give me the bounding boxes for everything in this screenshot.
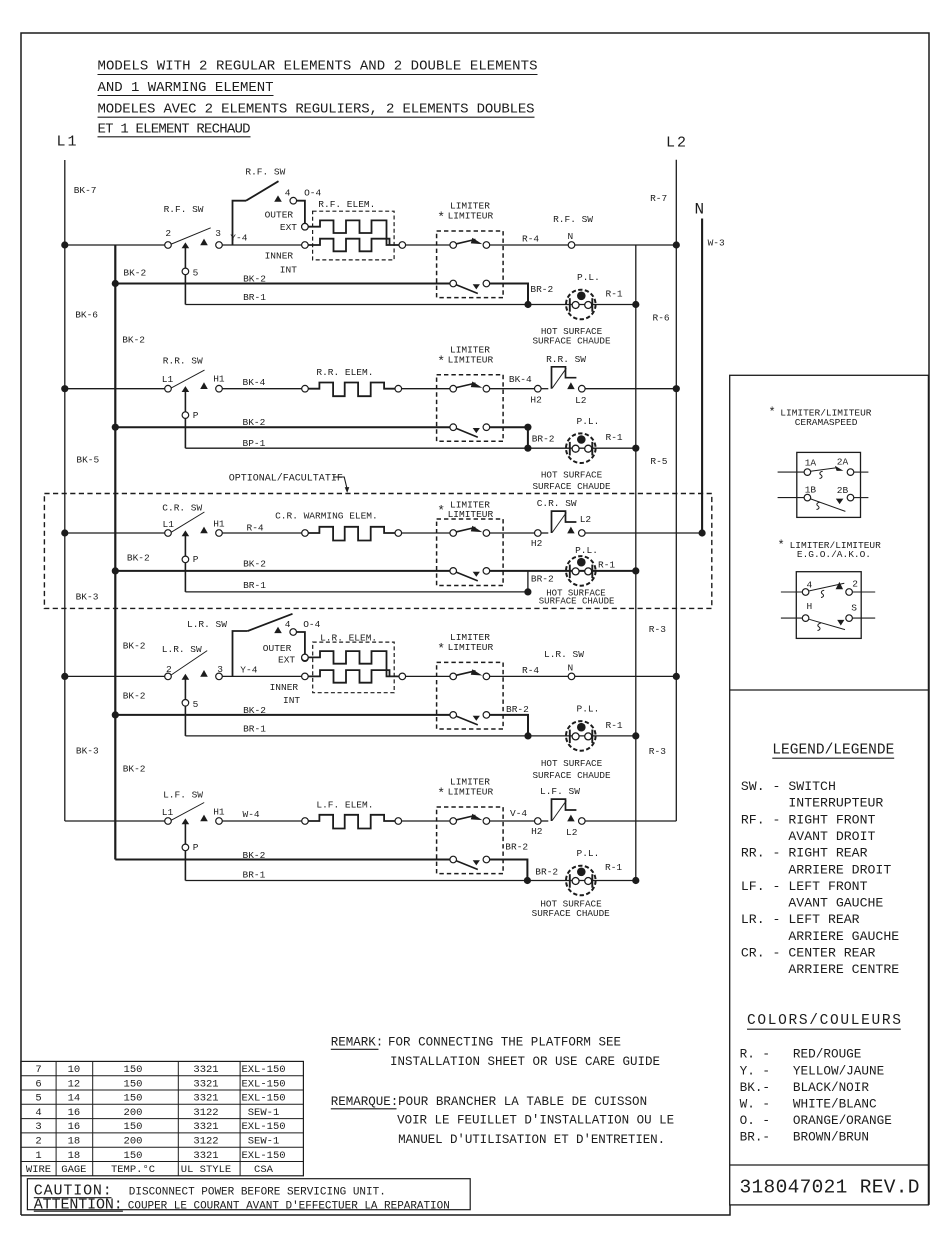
svg-text:C.R. WARMING ELEM.: C.R. WARMING ELEM. [275,511,378,522]
svg-text:R-3: R-3 [649,746,666,757]
wire R-4 (row3 switch to element) [222,522,301,533]
svg-text:O-4: O-4 [303,619,320,630]
svg-text:*: * [437,642,445,657]
resistor C.R. WARMING ELEM. [275,511,402,541]
limiter (L.R.) dashed box with contacts [437,662,504,729]
label OPTIONAL/FACULTATIF with leader arrow [229,472,349,493]
wire row4 main (L1 to L.R. switch) [65,675,165,677]
svg-text:BR-2: BR-2 [505,841,528,852]
svg-text:BR-2: BR-2 [531,574,554,585]
junction row5 pilot line at return vertical [632,877,639,884]
color code entries [740,1047,892,1145]
svg-text:HOT SURFACE: HOT SURFACE [541,470,603,481]
svg-text:H2: H2 [530,394,542,405]
caution box (EN/FR warning) [27,1179,470,1214]
svg-text:RR. - RIGHT REAR: RR. - RIGHT REAR [741,846,868,861]
junction row3 pilot line at return vertical [632,567,639,574]
legend entries (switch abbreviations) [741,779,899,977]
junction row1 BK-2 on feeder [112,280,119,287]
svg-text:OPTIONAL/FACULTATIF: OPTIONAL/FACULTATIF [229,472,343,484]
wire BK-2 (row1 to limiter lower contact) [115,274,450,285]
svg-text:BR-2: BR-2 [535,867,558,878]
svg-text:INNER: INNER [265,250,294,261]
svg-text:16: 16 [68,1121,81,1133]
junction row3 on neutral bus W-3 [699,529,706,536]
wire BK-2 (row3 pilot feed line) [115,559,450,571]
junction row3 BR-1 at step [524,588,531,595]
svg-text:C.R. SW: C.R. SW [537,498,577,509]
svg-text:CSA: CSA [254,1164,274,1176]
svg-text:R.F. SW: R.F. SW [553,214,593,225]
svg-text:OUTER: OUTER [265,209,294,220]
svg-text:O-4: O-4 [304,188,321,199]
junction row1 BR-2 at pilot line [524,301,531,308]
svg-text:BK-3: BK-3 [76,592,99,603]
junction row4 on L1 bus [61,673,68,680]
svg-text:1: 1 [35,1150,41,1162]
svg-text:EXT: EXT [278,654,295,665]
svg-text:BR-1: BR-1 [243,292,266,303]
junction row1 on L1 bus [61,241,68,248]
svg-text:200: 200 [124,1107,143,1119]
wire row2 element to limiter [402,388,450,390]
legend symbol: limiter CERAMASPEED (contacts 1A/2A/1B/2B) [778,452,869,517]
svg-text:1B: 1B [805,484,817,495]
svg-text:R-6: R-6 [653,312,670,323]
svg-text:SW. - SWITCH: SW. - SWITCH [741,779,836,794]
switch L.F. SW (thermal, terminals H2/L2) [531,786,585,838]
svg-text:7: 7 [35,1064,41,1076]
svg-text:VOIR LE FEUILLET D'INSTALLATIO: VOIR LE FEUILLET D'INSTALLATION OU LE [397,1113,674,1127]
svg-text:BK-3: BK-3 [76,746,99,757]
svg-text:R.F. ELEM.: R.F. ELEM. [318,199,375,210]
wire row1 element to limiter [406,244,450,246]
wire row3 limiter out through pilot lamp [490,570,636,572]
svg-text:SEW-1: SEW-1 [248,1107,280,1119]
legend heading LEGEND/LEGENDE [772,743,894,759]
wire row1 main (L1 to R.F. switch) [65,244,165,246]
svg-text:P.L.: P.L. [577,272,600,283]
svg-text:5: 5 [193,268,199,279]
svg-text:EXL-150: EXL-150 [241,1121,285,1133]
svg-text:200: 200 [124,1136,143,1148]
svg-text:AVANT DROIT: AVANT DROIT [741,829,876,844]
svg-text:16: 16 [68,1107,81,1119]
svg-text:150: 150 [124,1150,143,1162]
svg-text:ARRIERE CENTRE: ARRIERE CENTRE [741,962,899,977]
optional section dashed box (C.R. warming element) [44,494,711,609]
switch R.F. SW (left, terminals 2/3/5) [164,204,223,248]
svg-text:R.R. SW: R.R. SW [163,356,203,367]
svg-text:LIMITEUR: LIMITEUR [448,211,494,222]
svg-text:3321: 3321 [193,1064,218,1076]
svg-text:H1: H1 [213,806,225,817]
wire V-4 (row5 limiter to thermal switch) [490,808,535,821]
wire BP-1 (row2 pilot line) [185,438,635,449]
svg-text:H2: H2 [531,826,543,837]
junction row4 on L2 bus [673,673,680,680]
pilot lamp P.L. (L.F. hot surface indicator) [532,848,623,919]
wire BK-2 (main black vertical feeder) [114,245,116,860]
wire label BK-2 (row1) [123,268,146,279]
svg-text:14: 14 [68,1093,81,1105]
limiter (C.R.) label [437,500,493,521]
limiter (L.F.) label [437,777,493,802]
svg-text:3: 3 [217,664,223,675]
svg-text:6: 6 [35,1078,41,1090]
svg-text:MODELES AVEC 2 ELEMENTS REGULI: MODELES AVEC 2 ELEMENTS REGULIERS, 2 ELE… [98,102,535,118]
junction row2 pilot line at return vertical [632,445,639,452]
svg-text:R-1: R-1 [606,432,623,443]
wire BR-1 (row3, steps up to pilot line) [185,571,528,592]
limiter (R.F.) label [437,201,493,226]
junction row1 on L2 bus [673,241,680,248]
wire row3 limiter to thermal switch [490,532,535,534]
resistor L.F. ELEM. [302,799,402,828]
wire label BK-5 [76,455,99,466]
svg-text:L.R. SW: L.R. SW [544,649,584,660]
wire BR-2 (row1 limiter out, steps down to pilot) [490,284,554,305]
svg-text:*: * [778,538,785,552]
title block panel frame [730,375,929,1205]
pilot lamp P.L. (L.R. hot surface indicator) [532,704,622,782]
pin 5 branch (row1 switch pilot tap) [182,247,199,305]
wire gauge table [21,1061,304,1176]
svg-text:BK-2: BK-2 [127,553,150,564]
wire BR-1 (row5 pilot line) [185,869,635,880]
wire BK-2 (row2 to limiter lower contact) [115,417,450,428]
svg-text:AVANT GAUCHE: AVANT GAUCHE [741,896,884,911]
svg-text:150: 150 [124,1064,143,1076]
switch L.F. SW (left, terminals L1/H1/P) [162,789,225,824]
svg-text:DISCONNECT POWER BEFORE SERVIC: DISCONNECT POWER BEFORE SERVICING UNIT. [129,1187,386,1199]
limiter (C.R.) dashed box with contacts [437,519,504,586]
svg-text:R-1: R-1 [598,559,615,570]
svg-text:C.R. SW: C.R. SW [162,502,202,513]
svg-text:R-1: R-1 [605,862,622,873]
svg-text:L1: L1 [57,134,79,151]
wire row4 element to limiter [406,675,450,677]
title text (models description, EN/FR) [98,59,538,138]
wire BK-2 (row4 to limiter lower contact) [115,705,450,716]
svg-text:WIRE: WIRE [26,1164,51,1176]
svg-text:N: N [695,201,705,219]
svg-text:BR-2: BR-2 [532,433,555,444]
svg-text:W. - WHITE/BLANC: W. - WHITE/BLANC [740,1096,877,1111]
svg-text:BR-1: BR-1 [243,580,266,591]
svg-text:BK-7: BK-7 [74,185,97,196]
svg-text:ET 1 ELEMENT RECHAUD: ET 1 ELEMENT RECHAUD [98,122,251,138]
limiter (R.R.) dashed box with contacts [437,375,504,442]
svg-text:150: 150 [124,1078,143,1090]
svg-text:4: 4 [807,580,813,591]
svg-text:LR. - LEFT REAR: LR. - LEFT REAR [741,912,860,927]
svg-text:HOT SURFACE: HOT SURFACE [541,758,603,769]
switch R.F. SW (upper, terminal 4 OUTER/EXT) [233,167,322,276]
svg-text:5: 5 [193,699,199,710]
pilot lamp P.L. (R.R. hot surface indicator) [532,416,622,492]
limiter (L.F.) dashed box with contacts [437,807,504,874]
svg-text:H2: H2 [531,538,543,549]
svg-text:SURFACE CHAUDE: SURFACE CHAUDE [532,336,611,347]
svg-text:BK-2: BK-2 [243,559,266,570]
svg-text:P.L.: P.L. [577,704,600,715]
junction row2 on L2 bus [673,385,680,392]
resistor R.F. ELEM. (double element) [302,199,406,260]
note REMARK (EN) [331,1035,660,1069]
svg-text:P.L.: P.L. [577,848,600,859]
svg-text:COUPER LE COURANT AVANT D'EFFE: COUPER LE COURANT AVANT D'EFFECTUER LA R… [128,1201,450,1213]
svg-text:1A: 1A [805,457,817,468]
svg-text:BR-1: BR-1 [243,869,266,880]
svg-text:ARRIERE GAUCHE: ARRIERE GAUCHE [741,929,899,944]
junction row2 on L1 bus [61,385,68,392]
svg-text:4: 4 [285,188,291,199]
svg-text:*: * [769,406,776,420]
svg-text:BK.- BLACK/NOIR: BK.- BLACK/NOIR [740,1080,870,1095]
svg-text:BK-6: BK-6 [75,310,98,321]
switch R.F. SW terminal N [553,214,593,249]
svg-text:P: P [193,410,199,421]
svg-text:W-4: W-4 [243,809,260,820]
wire R-4 (row1 limiter to R.F. SW N) [490,234,569,245]
wire BR-2 (row5 limiter out, steps down to pilot) [490,841,559,880]
svg-text:EXL-150: EXL-150 [241,1093,285,1105]
svg-text:L1: L1 [162,807,174,818]
pin P branch (row5 switch pilot tap) [182,823,199,881]
wire V636 (pilot-lamp return vertical) [635,245,637,881]
svg-text:BR-1: BR-1 [243,724,266,735]
svg-text:V-4: V-4 [510,808,527,819]
svg-text:SEW-1: SEW-1 [248,1136,280,1148]
svg-text:S: S [851,603,857,614]
svg-text:3122: 3122 [193,1136,218,1148]
svg-text:P.L.: P.L. [575,545,598,556]
wire row4 N terminal to L2 bus [575,675,677,677]
legend symbol: limiter E.G.O./A.K.O. (contacts 4/2/H/S) [781,572,875,639]
svg-text:LF. - LEFT FRONT: LF. - LEFT FRONT [741,879,868,894]
svg-text:N: N [568,663,574,674]
svg-text:SURFACE CHAUDE: SURFACE CHAUDE [532,770,611,781]
wire label R-5 (L2 bus rows2-3) [650,456,667,467]
svg-text:L2: L2 [575,395,587,406]
svg-text:L.F. ELEM.: L.F. ELEM. [316,799,373,810]
svg-text:R-4: R-4 [247,522,264,533]
wire BR-2 (row2 limiter out, steps down to pilot) [490,427,555,448]
limiter (L.R.) label [437,632,493,657]
svg-text:LIMITEUR: LIMITEUR [448,354,494,365]
wire BR-1 (row1 pilot line) [185,292,635,304]
svg-text:L1: L1 [162,374,174,385]
wire label BK-2 (row4) [123,691,146,702]
net L1 bus wire (vertical, left) [64,160,66,821]
svg-text:P: P [193,842,199,853]
wire label R-7 (L2 bus above row1) [650,193,667,204]
wire label BK-3 (upper) [76,592,99,603]
resistor R.R. ELEM. [302,367,402,396]
net L2 bus wire (vertical, right) [675,160,677,821]
pin P branch (row3 switch pilot tap) [182,535,199,592]
svg-text:R.F. SW: R.F. SW [245,167,285,178]
svg-text:H: H [807,601,813,612]
svg-text:BK-2: BK-2 [123,764,146,775]
svg-text:Y-4: Y-4 [230,233,247,244]
svg-text:2: 2 [852,578,858,589]
wire label BK-3 (lower) [76,746,99,757]
svg-text:POUR BRANCHER LA TABLE DE CUIS: POUR BRANCHER LA TABLE DE CUISSON [398,1095,647,1109]
wire row2 L2 terminal to L2 bus [585,388,676,390]
wire row5 main (L1 to L.F. switch) [65,820,165,822]
part number 318047021 REV.D [740,1177,920,1199]
switch R.R. SW (left, terminals L1/H1/P) [162,356,225,393]
svg-text:BK-2: BK-2 [243,417,266,428]
wire R-4 (row4 limiter to L.R. SW N) [490,665,569,676]
svg-text:2: 2 [166,664,172,675]
svg-text:LEGEND/LEGENDE: LEGEND/LEGENDE [772,743,894,759]
svg-text:EXL-150: EXL-150 [241,1064,285,1076]
svg-text:R. - RED/ROUGE: R. - RED/ROUGE [740,1047,862,1062]
wire BR-2 (row4 limiter out, steps down to pilot) [490,704,529,736]
net L1 label [57,134,79,151]
wire label BK-2 (row3) [127,553,150,564]
svg-text:BK-2: BK-2 [123,691,146,702]
net N label [695,201,705,219]
svg-text:UL STYLE: UL STYLE [181,1164,231,1176]
wire W-3 (neutral bus vertical) [702,219,725,534]
svg-text:R.R. SW: R.R. SW [546,354,586,365]
svg-text:12: 12 [68,1078,81,1090]
svg-text:GAGE: GAGE [61,1164,86,1176]
svg-text:*: * [437,354,445,369]
svg-text:BK-4: BK-4 [509,374,532,385]
svg-text:Y-4: Y-4 [240,664,257,675]
svg-text:R-1: R-1 [606,289,623,300]
svg-text:BK-4: BK-4 [243,377,266,388]
wire Y-4 (row1 pin3 to element) [222,233,301,245]
svg-text:Y. - YELLOW/JAUNE: Y. - YELLOW/JAUNE [740,1063,885,1078]
net L2 label [666,135,688,152]
svg-text:BP-1: BP-1 [243,438,266,449]
svg-text:R.F. SW: R.F. SW [164,204,204,215]
wire BK-4 (row2 limiter to thermal switch) [490,374,535,389]
svg-text:L1: L1 [163,519,175,530]
junction row4 BK-2 on feeder [112,711,119,718]
svg-text:L.F. SW: L.F. SW [540,786,580,797]
wire row5 element to limiter [402,820,450,822]
svg-text:3122: 3122 [193,1107,218,1119]
legend symbol: limiter CERAMASPEED heading [769,406,872,428]
switch R.R. SW (thermal, terminals H2/L2) [530,354,586,406]
junction row5 BR-2 at pilot line [524,877,531,884]
svg-text:EXL-150: EXL-150 [241,1078,285,1090]
svg-text:CR. - CENTER REAR: CR. - CENTER REAR [741,945,876,960]
wire row3 main (L1 to C.R. switch) [65,532,165,534]
junction row3 on L1 bus [61,529,68,536]
wire label BK-7 [74,185,97,196]
svg-text:L2: L2 [566,827,578,838]
svg-text:BK-2: BK-2 [243,850,266,861]
wire label R-3 (L2 bus rows3-4) [649,624,666,635]
wire row2 main (L1 to R.R. switch) [65,388,165,390]
svg-text:5: 5 [35,1093,41,1105]
junction row3 BK-2 on feeder [112,567,119,574]
legend symbol: limiter E.G.O./A.K.O. heading [778,538,882,560]
svg-text:AND 1 WARMING ELEMENT: AND 1 WARMING ELEMENT [98,80,274,96]
svg-text:MODELS WITH 2 REGULAR ELEMENTS: MODELS WITH 2 REGULAR ELEMENTS AND 2 DOU… [98,59,538,75]
limiter (R.R.) label [437,344,493,369]
svg-text:P.L.: P.L. [577,416,600,427]
svg-text:10: 10 [68,1064,81,1076]
svg-text:TEMP.°C: TEMP.°C [111,1164,155,1176]
svg-text:3: 3 [35,1121,41,1133]
wire label BK-6 [75,310,98,321]
wire label R-3 (L2 bus rows4-5) [649,746,666,757]
svg-text:*: * [437,786,445,801]
svg-text:INTERRUPTEUR: INTERRUPTEUR [741,796,884,811]
switch L.R. SW (left, terminals 2/3/5) [162,644,223,680]
junction row1 pilot line at return vertical [632,301,639,308]
svg-text:150: 150 [124,1093,143,1105]
svg-text:LIMITEUR: LIMITEUR [448,787,494,798]
svg-text:L.R. SW: L.R. SW [187,619,227,630]
svg-text:2: 2 [35,1136,41,1148]
switch L.R. SW (upper, terminal 4 OUTER/EXT) [187,614,321,706]
pin P branch (row2 switch pilot tap) [182,390,199,448]
svg-text:BR-2: BR-2 [530,284,553,295]
svg-text:*: * [437,210,445,225]
svg-text:3321: 3321 [193,1078,218,1090]
svg-text:OUTER: OUTER [263,643,292,654]
wire BK-2 (row5 to limiter lower contact) [115,850,450,861]
svg-text:ARRIERE DROIT: ARRIERE DROIT [741,862,891,877]
resistor L.R. ELEM. (double element) [302,632,406,692]
svg-text:R-4: R-4 [522,665,539,676]
svg-text:MANUEL D'UTILISATION ET D'ENTR: MANUEL D'UTILISATION ET D'ENTRETIEN. [398,1133,665,1147]
svg-text:R-3: R-3 [649,624,666,635]
svg-text:R-4: R-4 [522,234,539,245]
svg-text:L2: L2 [666,135,688,152]
svg-text:W-3: W-3 [708,238,725,249]
svg-text:4: 4 [285,619,291,630]
svg-text:3321: 3321 [193,1121,218,1133]
svg-text:150: 150 [124,1121,143,1133]
wire label BK-2 (rows3-4) [123,641,146,652]
svg-text:BK-2: BK-2 [123,268,146,279]
svg-text:L.R. SW: L.R. SW [162,644,202,655]
svg-text:L.R. ELEM.: L.R. ELEM. [320,632,377,643]
colors heading COLORS/COULEURS [747,1013,901,1029]
svg-text:BK-2: BK-2 [122,335,145,346]
svg-text:REMARK:: REMARK: [331,1035,384,1049]
svg-text:*: * [437,504,445,519]
svg-text:FOR CONNECTING THE PLATFORM SE: FOR CONNECTING THE PLATFORM SEE [388,1035,621,1049]
wire row3 L2 terminal to neutral bus [585,532,702,534]
svg-text:L2: L2 [580,514,592,525]
wire row1 N terminal to L2 bus [575,244,677,246]
svg-text:REMARQUE:: REMARQUE: [331,1095,399,1109]
pin 5 branch (row4 switch pilot tap) [182,678,199,736]
junction row4 pilot line at return vertical [632,732,639,739]
svg-text:L.F. SW: L.F. SW [163,789,203,800]
pilot lamp P.L. (C.R. hot surface indicator) [531,545,616,606]
svg-text:EXL-150: EXL-150 [241,1150,285,1162]
svg-text:3: 3 [215,228,221,239]
svg-text:18: 18 [68,1150,81,1162]
svg-text:BK-2: BK-2 [123,641,146,652]
svg-text:2A: 2A [837,456,849,467]
limiter (R.F.) dashed box with contacts [437,231,504,298]
junction row4 BR-2 at pilot line [524,732,531,739]
